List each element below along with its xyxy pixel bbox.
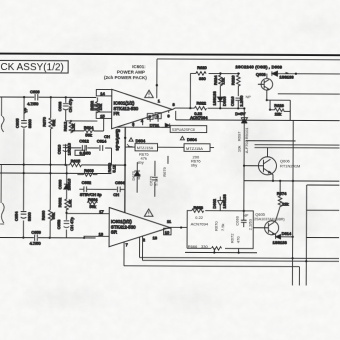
capacitor C606 (23, 89, 40, 113)
top thick rule (0, 54, 340, 56)
svg-text:22k: 22k (282, 201, 288, 206)
svg-text:10k: 10k (237, 146, 242, 152)
svg-text:R664: R664 (88, 197, 98, 202)
big box top line (157, 58, 340, 61)
connector squiggle left upper (1, 97, 4, 132)
wire bottom-left (0, 236, 96, 238)
label Q605 (254, 212, 285, 222)
wire E2 (267, 100, 291, 120)
node (180, 226, 182, 228)
diode D=5V arrow (241, 108, 247, 123)
capacitor C676 sym (152, 177, 158, 180)
capacitor C662 (79, 180, 116, 192)
resistor R666 sym (212, 247, 222, 251)
capacitor C605 (15, 118, 33, 128)
pin 16 wire (117, 125, 119, 128)
wire L y146.3 (255, 147, 340, 149)
svg-text:C656: C656 (31, 230, 41, 235)
svg-text:R670: R670 (214, 221, 219, 231)
svg-text:470: 470 (235, 236, 240, 243)
transistor Q608 (258, 74, 273, 101)
resistor R668 (192, 205, 204, 213)
svg-text:3(PGA)SFO: 3(PGA)SFO (115, 129, 120, 151)
wire pin17 (67, 213, 110, 215)
svg-text:R674: R674 (277, 191, 287, 196)
resistor R628 (270, 103, 290, 121)
transistor Q606 (244, 147, 277, 180)
svg-text:D604: D604 (136, 138, 146, 143)
svg-text:1SS133: 1SS133 (279, 75, 294, 80)
labels R697 R9101 (237, 127, 249, 154)
label Q606 (280, 158, 300, 168)
transistor Q605 (253, 221, 278, 237)
warning triangle 2 (144, 209, 153, 216)
wire vertical x67.3 (65, 165, 67, 238)
op-amp U1b IC601(2/2) (109, 208, 170, 247)
svg-text:MTZJ15A: MTZJ15A (137, 146, 154, 150)
svg-text:R614: R614 (84, 125, 94, 130)
svg-text:C616: C616 (230, 96, 235, 106)
pin 15 box (96, 112, 112, 118)
wire R y259.7 (142, 259, 338, 262)
svg-text:3300: 3300 (27, 118, 32, 128)
connector box S3 (170, 126, 207, 133)
bus M y179.5 (244, 180, 339, 182)
svg-text:5.1k: 5.1k (111, 165, 116, 173)
svg-text:R626: R626 (230, 75, 235, 85)
wire N y183.5 (307, 184, 340, 186)
node (237, 107, 239, 109)
svg-text:POWER AMP: POWER AMP (117, 69, 145, 74)
svg-text:330: 330 (201, 244, 208, 249)
node (238, 252, 240, 254)
pin 13 (142, 235, 157, 260)
svg-text:7.5k: 7.5k (220, 224, 225, 232)
node (269, 109, 271, 111)
svg-text:C666: C666 (235, 215, 240, 225)
svg-text:CH 47p: CH 47p (69, 217, 74, 231)
svg-text:2.2/50: 2.2/50 (239, 95, 244, 107)
part label smudge (90, 104, 101, 111)
bus vertical x125.6 (124, 127, 126, 212)
diode D721 (150, 119, 170, 128)
node (65, 212, 67, 214)
node grid (22, 96, 67, 239)
svg-text:R672: R672 (230, 233, 235, 243)
svg-text:C612: C612 (79, 138, 89, 143)
wire vertical x244.6 (243, 123, 245, 211)
node (189, 107, 191, 109)
wire caps row y147.5 (65, 148, 111, 165)
wire sby verticals (137, 156, 168, 197)
resistor R675 labels (137, 152, 149, 165)
resistor R605 (69, 158, 81, 167)
svg-text:D662: D662 (212, 198, 217, 208)
wire Q y256.8 (140, 256, 339, 259)
wire vertical x300.5 (298, 267, 300, 286)
svg-text:R606: R606 (84, 168, 94, 173)
svg-text:56k: 56k (85, 132, 91, 137)
resistor R674 (275, 181, 288, 221)
pin 9 (167, 111, 170, 119)
svg-text:RT1N241M: RT1N241M (280, 163, 300, 168)
svg-text:3300: 3300 (27, 211, 32, 221)
resistor R670 (42, 116, 56, 129)
svg-text:D614: D614 (282, 231, 292, 236)
diode D675 sym (134, 171, 140, 176)
svg-text:C608: C608 (57, 101, 62, 111)
svg-text:56k: 56k (90, 204, 96, 209)
svg-text:1.8k: 1.8k (67, 200, 72, 208)
warning triangle 1 (145, 90, 154, 97)
svg-text:100/16: 100/16 (66, 142, 71, 155)
svg-text:R612: R612 (63, 121, 68, 131)
capacitor C656 (29, 230, 41, 246)
diode D614 (273, 231, 293, 245)
svg-text:R622: R622 (196, 101, 206, 106)
diode D606 (212, 90, 227, 109)
svg-text:D606: D606 (222, 96, 227, 106)
op-amp U1 IC601(1/2) (112, 89, 173, 129)
svg-text:C660: C660 (57, 179, 62, 189)
pin 5 box (147, 114, 153, 120)
pin 4 (141, 118, 144, 125)
bus y164.5 (0, 163, 125, 166)
node (305, 260, 307, 262)
capacitor C658 (56, 216, 74, 230)
svg-text:C614: C614 (97, 138, 107, 143)
svg-text:C654: C654 (14, 211, 19, 221)
capacitor C664 (115, 180, 125, 192)
node x157 (156, 84, 158, 86)
pin 3 (132, 122, 135, 127)
node (66, 172, 68, 174)
svg-text:R9101: R9101 (244, 127, 249, 140)
wire vertical x51 (49, 97, 52, 237)
capacitor C614 (97, 134, 110, 151)
wire T box2 bottom (185, 251, 257, 253)
svg-text:5.1k: 5.1k (153, 178, 158, 186)
svg-text:A-F701: A-F701 (244, 139, 249, 153)
svg-text:R670: R670 (42, 116, 47, 126)
node (124, 137, 126, 139)
resistor R676 labels (191, 154, 201, 167)
wire vertical x307.3 (305, 185, 307, 285)
wire vertical x24 (22, 97, 25, 237)
svg-text:CK ASSY(1/2): CK ASSY(1/2) (0, 62, 63, 73)
diode D660 (57, 178, 71, 190)
capacitor C654 (14, 211, 32, 221)
pin stubs (214, 248, 238, 252)
node (219, 72, 221, 74)
resistor R624 (213, 73, 226, 89)
node (292, 236, 294, 238)
wire R620 row out (209, 72, 240, 74)
svg-text:FR: FR (113, 111, 119, 116)
svg-text:R628: R628 (274, 103, 284, 108)
svg-text:22k: 22k (275, 112, 281, 117)
node (243, 119, 245, 121)
bus E y92.4 (278, 93, 340, 95)
node (124, 164, 126, 166)
capacitor C666 sym (241, 211, 247, 227)
resistor R622 (190, 101, 208, 120)
svg-text:R679: R679 (162, 166, 167, 176)
svg-text:ACN7094: ACN7094 (190, 115, 208, 120)
wire y120.6 (66, 120, 98, 122)
svg-text:R605: R605 (71, 158, 81, 163)
svg-text:Q608: Q608 (256, 72, 267, 77)
diode D608 (272, 71, 340, 80)
wire K y143.4 (255, 144, 340, 146)
svg-text:C658: C658 (56, 219, 61, 229)
svg-text:0.22: 0.22 (195, 215, 204, 220)
pin 2 (140, 237, 146, 257)
svg-text:C662: C662 (82, 180, 92, 185)
wire O y208.7 (307, 209, 340, 211)
wire F left stub (175, 111, 177, 120)
svg-text:C664: C664 (115, 180, 125, 185)
svg-text:R620: R620 (197, 65, 207, 70)
svg-text:ACN7094: ACN7094 (191, 221, 209, 226)
sby cluster rotated labels (131, 166, 167, 186)
capacitor C610 (57, 142, 72, 155)
svg-text:SR: SR (111, 230, 117, 235)
svg-text:10: 10 (165, 230, 170, 235)
svg-text:IC601:: IC601: (132, 64, 146, 69)
svg-text:sby: sby (191, 162, 197, 167)
svg-text:R697: R697 (237, 131, 242, 141)
svg-text:C605: C605 (15, 118, 20, 128)
svg-text:Q605: Q605 (255, 212, 266, 217)
svg-text:1SS133: 1SS133 (222, 194, 227, 209)
node (23, 96, 25, 98)
wire apex1 out (172, 108, 244, 110)
connector box pin10 (164, 219, 172, 235)
svg-text:MTZJ15A: MTZJ15A (186, 146, 203, 151)
pin 14 box (96, 89, 112, 95)
svg-text:C606: C606 (30, 89, 40, 94)
bus F y119 (176, 119, 340, 122)
resistor R612 (63, 121, 76, 133)
node (292, 180, 294, 182)
node (295, 73, 297, 75)
svg-text:(2ch POWER PACK): (2ch POWER PACK) (104, 75, 147, 80)
wire apex2 to box2 (170, 226, 187, 228)
svg-text:C610: C610 (57, 144, 62, 154)
node (213, 251, 215, 253)
svg-text:R668: R668 (193, 205, 203, 210)
bus y173 (0, 172, 111, 175)
resistor R660 (41, 210, 56, 221)
wire zener row y146.5 (125, 146, 214, 148)
resistor R664 (87, 197, 98, 209)
wire S y265.2 (124, 265, 299, 268)
diode D604a (127, 138, 146, 147)
resistor R614 (84, 125, 94, 137)
resistor R606 (77, 168, 97, 177)
resistor R620 (190, 65, 207, 81)
node base (243, 165, 245, 167)
svg-text:CH 47p: CH 47p (68, 98, 73, 112)
svg-text:2.2/50: 2.2/50 (248, 218, 253, 230)
wire vertical x157 to triangle (156, 59, 158, 98)
node (243, 210, 245, 212)
svg-text:4.7/50: 4.7/50 (29, 241, 41, 246)
pin 6 box (155, 113, 161, 119)
wire R614 row y130.5 (71, 118, 104, 131)
wire under pins y124 (162, 126, 171, 128)
wire vertical x66 (64, 97, 66, 164)
wire J y139.5 (246, 140, 296, 142)
svg-text:NP: NP (246, 95, 252, 99)
node (266, 99, 268, 101)
capacitor C616 (230, 95, 252, 109)
svg-text:S3PUA2SFC8: S3PUA2SFC8 (172, 128, 195, 132)
svg-text:56k: 56k (51, 120, 56, 126)
wire P y236 (306, 236, 339, 238)
svg-text:D604: D604 (187, 137, 197, 142)
wire R620 vertical (189, 73, 191, 108)
svg-text:1.8k: 1.8k (71, 124, 76, 132)
svg-text:2SC2240 (CGB) , D608: 2SC2240 (CGB) , D608 (235, 64, 282, 69)
node (219, 107, 221, 109)
pin 7 (124, 242, 129, 266)
node (279, 180, 281, 182)
svg-text:3.3/50: 3.3/50 (79, 150, 91, 155)
svg-text:R624: R624 (213, 75, 218, 85)
diode D662 (212, 194, 227, 211)
node (291, 257, 293, 259)
wire pin16 bus (117, 126, 171, 128)
svg-text:R662: R662 (57, 197, 62, 207)
svg-text:1S916: 1S916 (66, 178, 71, 190)
wire vertical x293.6 speaker line (291, 120, 294, 285)
CK ASSY title box (0, 60, 68, 73)
IC601 POWER AMP caption (104, 64, 147, 80)
connector squiggle left lower (0, 165, 4, 225)
svg-text:56k: 56k (51, 213, 56, 219)
resistor R662 (57, 197, 72, 210)
resistor R626 (230, 74, 240, 97)
hybrid box ACN7094 (187, 211, 253, 249)
svg-text:1SS133: 1SS133 (273, 240, 288, 245)
wire top-left input (0, 96, 96, 98)
node (50, 96, 52, 98)
diode D604b (180, 136, 197, 142)
svg-text:R666: R666 (188, 244, 198, 249)
capacitor C612 (79, 138, 91, 155)
svg-text:12k: 12k (220, 78, 225, 84)
node (237, 72, 239, 74)
connector small box (75, 150, 85, 155)
wire pin18 (84, 236, 109, 238)
node (243, 107, 245, 109)
svg-text:4.7/50: 4.7/50 (27, 101, 39, 106)
zener MTZJ15A box b (184, 144, 210, 152)
svg-text:1SS133: 1SS133 (212, 91, 217, 106)
svg-text:CH: CH (104, 134, 110, 139)
resistor R602 (89, 97, 102, 113)
node (272, 180, 274, 182)
svg-text:R660: R660 (41, 210, 46, 220)
svg-text:CH: CH (113, 192, 119, 197)
svg-text:sby: sby (137, 160, 143, 165)
zener MTZJ15A box a (135, 143, 158, 151)
capacitor C608 (57, 98, 72, 112)
svg-text:330: 330 (199, 76, 206, 81)
